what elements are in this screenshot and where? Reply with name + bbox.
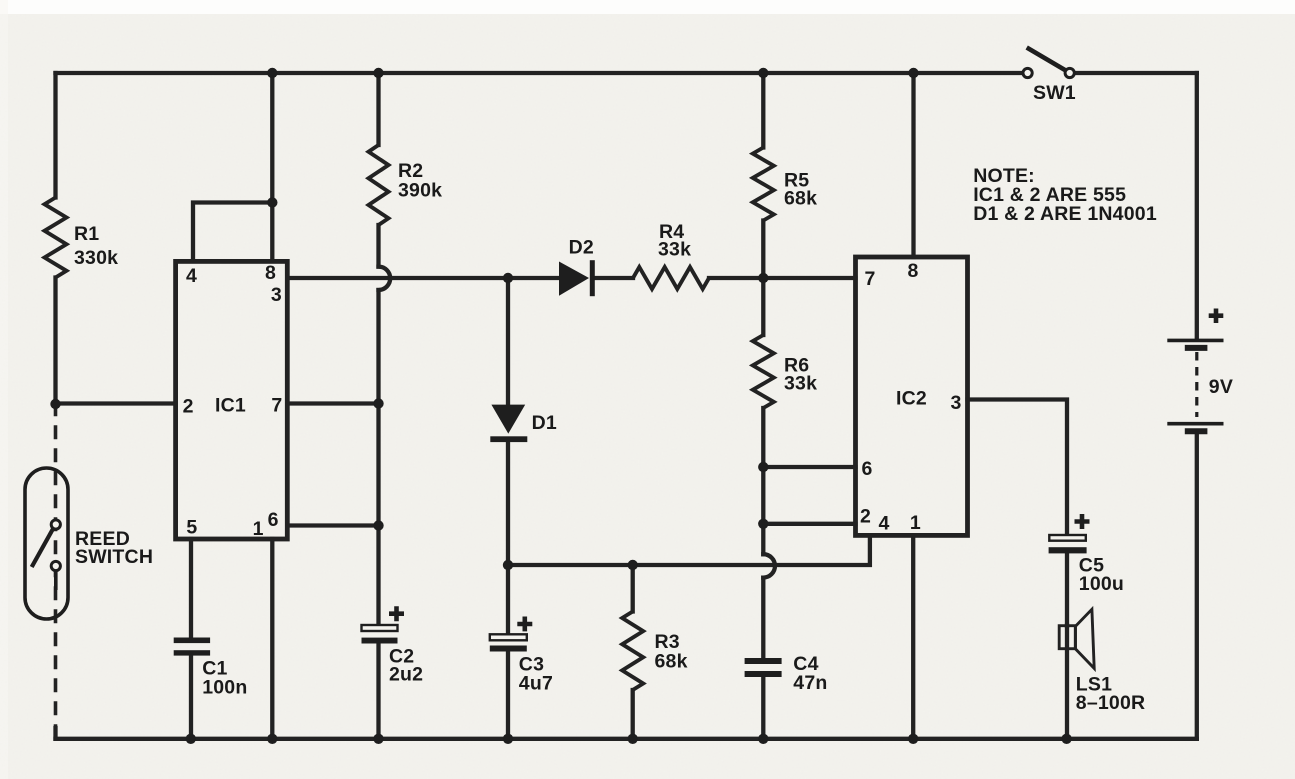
svg-text:IC2: IC2: [896, 388, 927, 410]
svg-text:1: 1: [253, 518, 264, 540]
svg-text:6: 6: [268, 509, 279, 531]
svg-text:2: 2: [183, 396, 194, 418]
svg-text:68k: 68k: [784, 188, 817, 210]
svg-text:4: 4: [878, 513, 889, 535]
svg-text:2u2: 2u2: [389, 664, 423, 686]
svg-text:330k: 330k: [74, 247, 118, 269]
svg-text:7: 7: [864, 268, 875, 290]
svg-text:8–100R: 8–100R: [1076, 692, 1146, 714]
svg-text:4u7: 4u7: [519, 673, 553, 695]
svg-text:R1: R1: [74, 223, 99, 245]
svg-text:4: 4: [186, 265, 197, 287]
svg-text:SWITCH: SWITCH: [75, 546, 153, 568]
svg-text:1: 1: [910, 512, 921, 534]
svg-text:100n: 100n: [202, 677, 247, 699]
svg-text:8: 8: [265, 262, 276, 284]
svg-text:2: 2: [860, 506, 871, 528]
svg-text:100u: 100u: [1079, 573, 1124, 595]
svg-text:33k: 33k: [784, 373, 817, 395]
svg-text:SW1: SW1: [1033, 82, 1076, 104]
svg-text:5: 5: [186, 517, 197, 539]
svg-text:47n: 47n: [793, 672, 827, 694]
svg-text:3: 3: [950, 392, 961, 414]
svg-text:68k: 68k: [655, 651, 688, 673]
svg-text:8: 8: [907, 260, 918, 282]
svg-text:D1: D1: [532, 412, 557, 434]
svg-text:6: 6: [861, 458, 872, 480]
svg-text:D1 & 2 ARE 1N4001: D1 & 2 ARE 1N4001: [973, 203, 1157, 225]
svg-text:33k: 33k: [658, 239, 691, 261]
svg-text:3: 3: [271, 284, 282, 306]
svg-text:7: 7: [271, 394, 282, 416]
svg-text:D2: D2: [569, 237, 594, 259]
svg-text:9V: 9V: [1209, 376, 1233, 398]
svg-text:IC1: IC1: [215, 395, 246, 417]
svg-text:390k: 390k: [398, 180, 442, 202]
